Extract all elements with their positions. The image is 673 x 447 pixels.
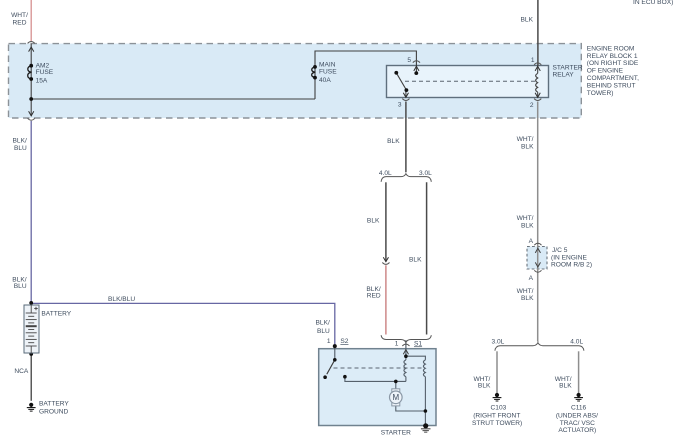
svg-text:BLK: BLK (521, 17, 534, 24)
svg-text:C116: C116 (571, 405, 587, 412)
svg-text:RELAY BLOCK 1: RELAY BLOCK 1 (587, 53, 638, 60)
svg-text:ENGINE ROOM: ENGINE ROOM (587, 45, 635, 52)
svg-text:BEHIND STRUT: BEHIND STRUT (587, 82, 636, 89)
svg-text:WHT/: WHT/ (517, 288, 534, 295)
svg-text:S1: S1 (414, 340, 422, 347)
svg-text:4.0L: 4.0L (379, 170, 392, 177)
svg-text:OF ENGINE: OF ENGINE (587, 68, 624, 75)
svg-text:TOWER): TOWER) (587, 90, 614, 97)
svg-text:BLK: BLK (367, 218, 380, 225)
svg-text:ROOM R/B 2): ROOM R/B 2) (551, 261, 592, 268)
svg-text:(IN ENGINE: (IN ENGINE (551, 254, 588, 261)
svg-text:BLK: BLK (387, 138, 400, 145)
svg-text:COMPARTMENT,: COMPARTMENT, (587, 75, 639, 82)
svg-text:A: A (529, 238, 534, 245)
svg-text:NCA: NCA (14, 368, 29, 375)
svg-text:5: 5 (407, 57, 411, 64)
svg-text:1: 1 (327, 338, 331, 345)
svg-text:BATTERY: BATTERY (41, 311, 71, 318)
svg-text:BLU: BLU (14, 145, 27, 152)
svg-text:(UNDER ABS/: (UNDER ABS/ (556, 413, 598, 420)
svg-text:BLK: BLK (478, 382, 491, 389)
svg-text:4.0L: 4.0L (570, 339, 583, 346)
svg-text:C103: C103 (491, 405, 507, 412)
svg-text:FUSE: FUSE (319, 68, 337, 75)
svg-text:BLK: BLK (521, 295, 534, 302)
svg-text:BLK/: BLK/ (13, 137, 27, 144)
svg-text:BLK: BLK (521, 223, 534, 230)
svg-text:(ON RIGHT SIDE: (ON RIGHT SIDE (587, 60, 639, 67)
svg-text:MAIN: MAIN (319, 61, 336, 68)
svg-text:BLK: BLK (521, 143, 534, 150)
svg-text:STARTER: STARTER (381, 430, 411, 437)
svg-text:3.0L: 3.0L (419, 170, 432, 177)
svg-text:GROUND: GROUND (39, 408, 69, 415)
svg-text:A: A (529, 275, 534, 282)
svg-text:ACTUATOR): ACTUATOR) (558, 427, 596, 434)
svg-text:BLU: BLU (14, 283, 27, 290)
svg-text:WHT/: WHT/ (517, 215, 534, 222)
svg-text:2: 2 (530, 102, 534, 109)
svg-text:BLU: BLU (317, 328, 330, 335)
svg-text:TRAC/ VSC: TRAC/ VSC (560, 420, 595, 427)
svg-text:1: 1 (531, 57, 535, 64)
svg-text:3: 3 (398, 101, 402, 108)
svg-text:M: M (392, 393, 399, 402)
svg-text:RED: RED (13, 19, 27, 26)
svg-text:BLK/: BLK/ (316, 320, 330, 327)
svg-text:J/C 5: J/C 5 (552, 247, 568, 254)
svg-text:1: 1 (395, 340, 399, 347)
svg-text:STRUT TOWER): STRUT TOWER) (472, 420, 522, 427)
svg-text:S2: S2 (340, 338, 348, 345)
svg-text:(RIGHT FRONT: (RIGHT FRONT (473, 413, 520, 420)
svg-text:RELAY: RELAY (553, 72, 575, 79)
svg-text:BLK/BLU: BLK/BLU (108, 296, 135, 303)
svg-text:WHT/: WHT/ (11, 12, 28, 19)
svg-text:BATTERY: BATTERY (39, 401, 69, 408)
svg-text:15A: 15A (36, 78, 48, 85)
svg-text:RED: RED (367, 293, 381, 300)
svg-text:STARTER: STARTER (553, 64, 583, 71)
svg-text:40A: 40A (319, 77, 331, 84)
svg-text:BLK: BLK (559, 382, 572, 389)
svg-text:IN ECU BOX): IN ECU BOX) (633, 0, 673, 6)
svg-text:BLK: BLK (409, 256, 422, 263)
svg-text:WHT/: WHT/ (517, 136, 534, 143)
svg-text:3.0L: 3.0L (492, 339, 505, 346)
svg-text:FUSE: FUSE (36, 69, 54, 76)
